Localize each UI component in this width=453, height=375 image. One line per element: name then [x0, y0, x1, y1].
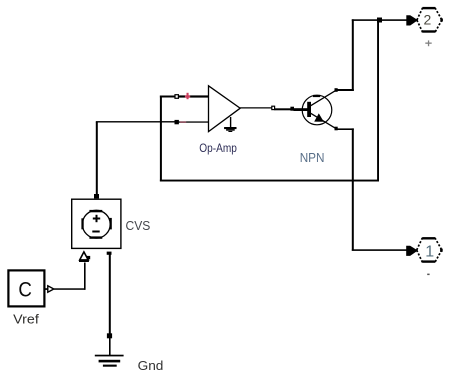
op-amp + input stub wire	[178, 95, 208, 97]
op-amp U1	[209, 86, 272, 132]
CVS - symbol	[92, 231, 99, 233]
CVS bottom left input arrow port	[79, 252, 90, 262]
CVS top port	[94, 194, 99, 198]
wire collector to port 2	[337, 19, 406, 91]
op-amp - input stub wire	[178, 121, 208, 122]
svg-text:2: 2	[424, 12, 432, 28]
wire emitter to port 1	[337, 128, 406, 251]
dark red - polarity marker	[180, 121, 186, 122]
svg-text:Gnd: Gnd	[138, 359, 164, 370]
wire Vref to CVS input port	[54, 263, 86, 290]
port 1 polarity label -	[427, 274, 429, 276]
port 2 polarity label +	[425, 40, 431, 46]
CVS controlled voltage source block	[72, 199, 121, 248]
wire feedback net: op-amp + input down, across, up to collector net	[160, 20, 379, 182]
connection port 1 arrow	[406, 246, 417, 256]
junction dot collector/feedback	[377, 18, 382, 23]
svg-text:1: 1	[425, 244, 434, 261]
transistor NPN Q1	[294, 90, 337, 128]
wire CVS minus to ground	[109, 255, 111, 356]
CVS + symbol	[93, 215, 100, 222]
svg-text:CVS: CVS	[126, 219, 151, 233]
svg-text:Vref: Vref	[13, 311, 39, 326]
red + polarity marker	[185, 93, 190, 99]
wire CVS output to op-amp inverting input	[96, 121, 176, 194]
op-amp output port	[272, 106, 275, 109]
wire op-amp output to NPN base	[274, 108, 291, 110]
op-amp + input port	[175, 95, 178, 99]
Vref constant block	[8, 270, 44, 306]
connection port 2 arrow	[406, 15, 417, 25]
NPN emitter port	[335, 127, 338, 131]
svg-text:C: C	[18, 277, 32, 301]
op-amp reference ground	[224, 117, 236, 132]
NPN base port	[290, 107, 294, 111]
svg-text:NPN: NPN	[300, 151, 325, 165]
CVS bottom right port (-)	[107, 252, 112, 255]
ground symbol Gnd	[95, 355, 124, 367]
NPN collector port	[335, 88, 338, 92]
svg-text:Op-Amp: Op-Amp	[199, 141, 237, 155]
ground block port	[107, 334, 112, 338]
Vref output port arrow	[45, 286, 54, 292]
connection port 1 hexagon	[417, 237, 443, 263]
op-amp - input port	[175, 120, 178, 123]
connection port 2 hexagon	[417, 7, 443, 33]
